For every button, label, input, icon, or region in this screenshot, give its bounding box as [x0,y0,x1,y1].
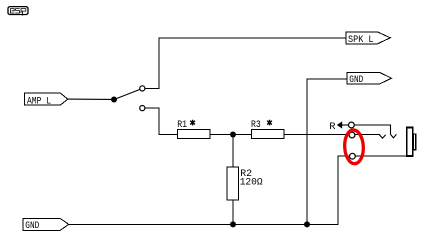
svg-text:SPK L: SPK L [348,34,374,46]
red highlight ellipse annotation [344,129,364,164]
jack body [407,128,416,156]
bottom ground wire [69,156,350,224]
junction dot switch pole [111,97,117,103]
svg-text:R: R [329,121,335,133]
svg-text:AMP L: AMP L [27,95,51,107]
resistor R1 [177,119,210,138]
wire bottom throw to R1 [145,108,178,134]
switch top throw contact [140,86,145,91]
wire sleeve to jack body [355,155,406,157]
switch SW lever [114,90,140,100]
jack tip contact (circle 2) [349,132,355,138]
svg-text:R3: R3 [251,119,261,131]
svg-text:R1: R1 [177,119,187,131]
wire top throw to SPK_L [145,38,346,88]
tag SPK_L [346,32,390,46]
tag GND bottom left [23,218,69,232]
wire switch contact arm [354,124,391,126]
svg-text:GND: GND [25,220,39,232]
resistor R3 [251,119,284,138]
switch bottom throw contact [140,106,145,111]
svg-text:GND: GND [349,74,363,86]
node R off-page arrow [329,121,348,133]
wire AMP_L to switch pole [68,98,111,100]
junction node R1/R2/R3 [230,132,236,138]
wire tip lever [355,134,380,136]
jack sleeve contact (circle 3) [350,153,356,159]
wire R3 to jack tip lever [284,134,350,136]
jack switch contact (circle 1) [349,122,355,128]
junction dot R2 to ground [230,221,236,227]
tag AMP_L [25,93,68,107]
wire GND right down to bottom [307,79,347,225]
wire R1 to node [210,134,252,136]
junction dot GND branch [304,221,310,227]
resistor R2 [227,135,263,225]
tag GND right [347,72,392,86]
svg-text:120Ω: 120Ω [240,177,263,189]
ESP logo [8,7,28,16]
